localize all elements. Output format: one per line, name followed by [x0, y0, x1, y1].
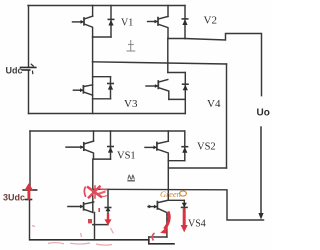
wire VS4 collector junction — [168, 199, 184, 201]
transistor V2 — [148, 6, 168, 39]
wire top rail of lower H-bridge — [30, 130, 185, 132]
wire from V1 junction down to node A rail — [92, 37, 94, 62]
svg-text:Green: Green — [160, 189, 181, 199]
transistor VS2 — [145, 131, 168, 161]
wire V3 emitter junction — [93, 98, 111, 100]
svg-text:3Udc: 3Udc — [3, 193, 25, 203]
wire V4 collector junction — [168, 72, 186, 74]
transistor V3 — [73, 62, 92, 114]
svg-text:V3: V3 — [124, 98, 138, 110]
wire top rail of upper H-bridge — [28, 5, 185, 7]
transistor VS1 — [66, 131, 94, 159]
wire V3 collector junction — [93, 76, 111, 78]
glyph hand mark upper bridge — [127, 40, 136, 51]
diode of V2 — [182, 6, 187, 39]
diode of VS2 — [182, 131, 187, 161]
pink scan smudges near bottom rail — [32, 226, 114, 246]
svg-text:V1: V1 — [121, 18, 133, 29]
wire bottom rail of upper bridge — [29, 113, 186, 115]
wire VS2 emitter junction — [168, 160, 185, 162]
diode of VS4 — [182, 200, 187, 209]
red current arrow through VS3 diode — [88, 208, 112, 225]
wire V4 drop to bottom rail — [184, 99, 186, 113]
output voltage arrow Uo — [260, 127, 262, 213]
svg-text:V2: V2 — [204, 15, 217, 27]
wire output + from V2/V4 midpoint to right terminal — [185, 34, 262, 96]
wire V1 emitter junction — [93, 36, 111, 38]
wire VS1/VS3 midpoint to output minus — [93, 189, 264, 220]
transistor VS4 — [148, 200, 168, 237]
wire VS1/VS3 mid leg upper — [92, 159, 94, 190]
wire VS3 drop to bottom rail — [94, 212, 96, 239]
svg-text:Udc: Udc — [6, 66, 23, 76]
diode of V3 — [108, 77, 113, 99]
red current arrow through VS4 diode — [181, 209, 188, 233]
glyph hand mark lower bridge — [127, 175, 134, 181]
diode of VS3 — [105, 190, 110, 221]
wire V2 emitter junction — [168, 38, 185, 40]
wire bottom rail of lower bridge — [30, 239, 149, 241]
transistor VS3 — [68, 190, 94, 212]
svg-text:V4: V4 — [207, 98, 221, 110]
wire VS4 emitter junction — [149, 236, 167, 238]
node A rail (V1/V3 midpoint) — [93, 62, 227, 64]
red scan curl near rail step — [152, 233, 154, 241]
wire series link from node A to VS2/VS4 midpoint — [168, 167, 226, 169]
diode of V1 — [108, 6, 113, 38]
wire VS3 emitter junction — [93, 224, 108, 226]
source Udc capacitor plates — [21, 64, 36, 73]
diode of VS1 — [108, 131, 113, 159]
wire VS1 emitter junction — [94, 158, 111, 160]
wire V4 emitter junction — [169, 98, 186, 100]
wire V2/V4 mid leg — [167, 39, 169, 73]
transistor V4 — [146, 80, 169, 100]
wire left side of upper bridge — [28, 6, 30, 68]
svg-text:Uo: Uo — [257, 108, 270, 119]
svg-text:VS4: VS4 — [188, 219, 206, 230]
svg-text:VS2: VS2 — [197, 142, 216, 153]
red current arrow through VS4 emitter (curved) — [160, 212, 169, 234]
red current annotation: source arrow at 3Udc — [24, 183, 33, 200]
wire left side of lower bridge — [29, 131, 31, 189]
source 3Udc capacitor plates — [23, 190, 36, 200]
wire node A drop to lower bridge — [226, 64, 228, 168]
red X mark on VS1/VS3 leg — [84, 185, 107, 199]
wire VS2/VS4 mid leg — [167, 161, 169, 201]
svg-text:VS1: VS1 — [117, 151, 136, 162]
transistor V1 — [73, 6, 93, 38]
diode of V4 — [183, 73, 188, 100]
